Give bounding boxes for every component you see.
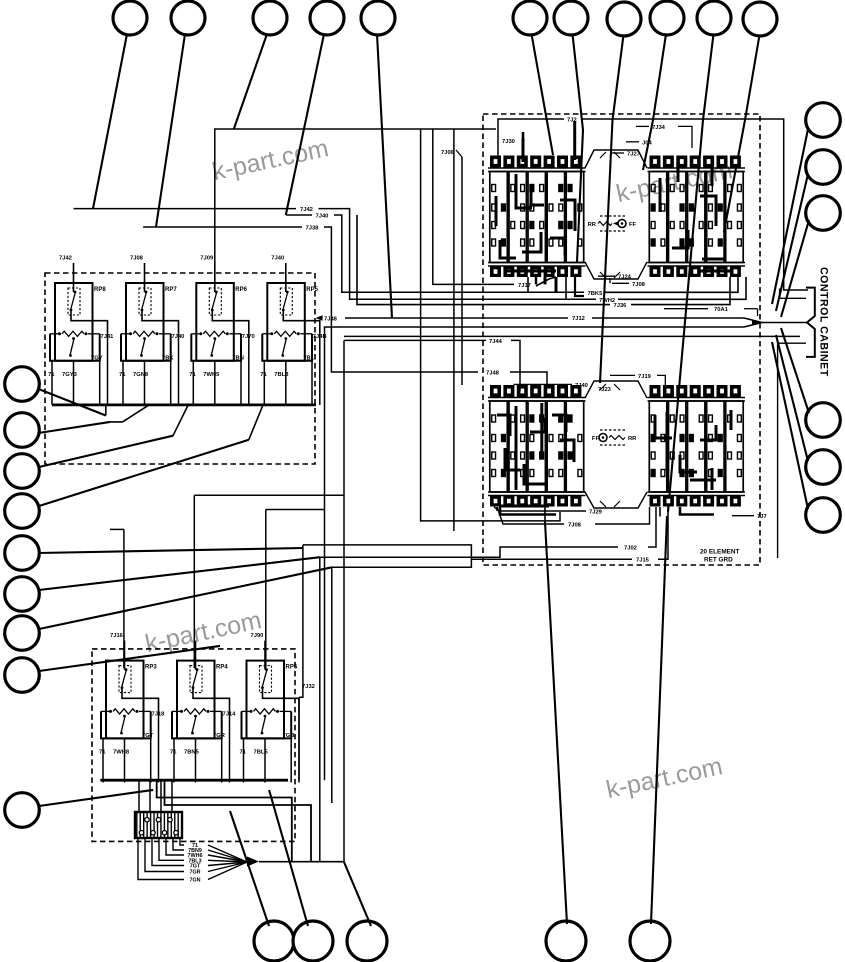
relay RP7 coil	[139, 288, 151, 315]
terminal strip top lugs	[650, 385, 661, 397]
terminal block body	[490, 172, 508, 263]
svg-text:7GY: 7GY	[91, 356, 103, 362]
svg-text:20 ELEMENT: 20 ELEMENT	[700, 549, 740, 556]
terminal strip bottom lugs	[648, 491, 746, 493]
terminal block heavy feed wires	[666, 403, 669, 490]
wire RP5 feeder	[266, 509, 325, 511]
wires from bus to connector block	[138, 780, 140, 812]
label 7J34	[636, 125, 649, 127]
leader from left balloon 2	[39, 422, 111, 433]
relay panel dashed enclosure	[45, 273, 315, 464]
svg-text:7GT: 7GT	[142, 733, 154, 739]
relay RP5 coil out wire	[263, 689, 300, 712]
cable bottom line	[325, 327, 745, 780]
callout balloon bottom	[630, 921, 670, 961]
relay RP6 coil out wire	[212, 311, 249, 334]
svg-text:7J48: 7J48	[324, 317, 338, 323]
wire 7J36 elbow	[631, 277, 730, 305]
svg-text:7J32: 7J32	[302, 684, 315, 690]
connector block	[135, 812, 182, 838]
wire 7J15 branch	[471, 558, 632, 560]
relay RP8 switch	[72, 337, 75, 340]
svg-text:7J48: 7J48	[486, 371, 500, 377]
bracket stub wires	[780, 289, 806, 299]
svg-text:7J09: 7J09	[200, 256, 214, 262]
relay RP6 wires to bus	[192, 361, 194, 405]
leader from balloon 6	[532, 34, 554, 155]
callout balloon top-left	[171, 1, 205, 35]
callout balloon left	[5, 577, 40, 612]
terminal assembly upper bridge top	[585, 150, 647, 168]
callout balloon left	[5, 658, 40, 693]
svg-text:71: 71	[170, 750, 177, 756]
label 7J04	[626, 141, 639, 143]
leader from bottom balloon 1	[230, 811, 269, 926]
svg-text:RP7: RP7	[165, 287, 177, 293]
svg-text:7J16: 7J16	[110, 633, 124, 639]
callout balloon top-right	[607, 2, 641, 36]
terminal block internal wiring	[515, 406, 518, 490]
leader from bottom balloon 3	[344, 862, 371, 926]
svg-text:71: 71	[48, 372, 55, 378]
svg-text:7J30: 7J30	[502, 139, 515, 145]
relay RP7 contact bar	[121, 333, 129, 335]
relay RP3 coil feed wire	[124, 641, 126, 670]
wire 7J44 drop	[511, 340, 520, 391]
terminal block contact slots	[492, 185, 496, 192]
wire 7J06	[461, 157, 463, 385]
relay RP4 switch	[194, 715, 197, 718]
terminal strip top lugs	[650, 156, 661, 168]
wire 7J42 continued	[319, 209, 597, 300]
svg-text:7J40: 7J40	[271, 256, 284, 262]
svg-text:7J40: 7J40	[575, 383, 588, 389]
callout balloon left	[5, 367, 40, 402]
wire 7J48 long run	[316, 315, 323, 321]
terminal assembly lower bridge bottom	[585, 492, 647, 508]
relay RP4 coil feed wire	[195, 641, 197, 670]
callout balloon top-right	[513, 1, 547, 35]
svg-text:RET GRD: RET GRD	[704, 557, 733, 564]
relay RP5 coil feed wire	[285, 263, 287, 292]
svg-text:7GB: 7GB	[283, 733, 295, 739]
relay RP8 coil feed wire	[73, 263, 75, 292]
relay panel bus wire	[52, 403, 316, 406]
wire 7BK5 elbow	[604, 277, 738, 292]
upper assembly jumper RR-FF	[600, 215, 627, 217]
leader from right balloon 1	[772, 129, 808, 304]
relay RP5 switch	[284, 337, 287, 340]
callout balloon left	[5, 536, 40, 571]
relay RP7 wires to bus	[122, 361, 124, 405]
relay RP8 coil	[68, 288, 80, 315]
svg-text:71: 71	[240, 750, 247, 756]
svg-text:7BN: 7BN	[232, 356, 244, 362]
leader from right balloon 5	[776, 335, 808, 461]
terminal block heavy feed wires	[507, 403, 510, 490]
terminal block internal wiring	[666, 412, 669, 470]
svg-text:7J90: 7J90	[251, 633, 264, 639]
relay RP6 contact bar	[191, 333, 199, 335]
svg-text:7BN5: 7BN5	[184, 750, 200, 756]
relay RP5 contact bar	[242, 710, 250, 712]
wire 7J21 upper loop	[498, 119, 564, 157]
callout balloon left	[5, 413, 40, 448]
callout balloon left	[5, 793, 40, 828]
svg-text:7J34: 7J34	[652, 125, 666, 131]
svg-text:7BK: 7BK	[162, 356, 174, 362]
relay RP8 wires to bus	[51, 361, 53, 405]
lower relay panel dashed enclosure	[92, 649, 295, 842]
wire 7J48 long run line	[345, 317, 568, 319]
callout balloon top-left	[310, 1, 344, 35]
wire 7J32 drop	[298, 697, 300, 780]
leader from right balloon 6	[772, 342, 808, 509]
svg-text:7GR: 7GR	[213, 733, 226, 739]
terminal block body	[649, 401, 667, 492]
svg-text:7J42: 7J42	[300, 207, 313, 213]
leader from balloon 4	[286, 34, 324, 215]
svg-text:71: 71	[260, 372, 267, 378]
relay RP3 coil	[119, 666, 131, 693]
callout balloon top-left	[253, 1, 287, 35]
terminal strip bottom lugs	[488, 262, 586, 264]
relay RP7 body	[126, 283, 164, 361]
relay RP5 contact bar	[262, 333, 270, 335]
svg-text:RP5: RP5	[306, 287, 318, 293]
svg-text:CONTROL CABINET: CONTROL CABINET	[818, 267, 830, 377]
relay RP7 switch	[143, 337, 146, 340]
leader from right balloon 3	[781, 220, 809, 317]
wire drop long vertical	[453, 129, 455, 531]
wire 7J02 drop	[648, 507, 656, 547]
svg-text:RP8: RP8	[94, 287, 106, 293]
cable top line	[592, 317, 744, 319]
svg-text:7J27: 7J27	[627, 152, 640, 158]
callout balloon top-left	[113, 1, 147, 35]
leader from balloon 5	[377, 34, 392, 318]
svg-text:70A1: 70A1	[714, 307, 729, 313]
terminal strip top lugs	[490, 385, 501, 397]
leader from left balloon 8	[39, 646, 220, 671]
svg-text:7J23: 7J23	[598, 387, 612, 393]
relay RP4 wires to bus	[173, 738, 175, 782]
svg-text:7BL5: 7BL5	[254, 750, 269, 756]
svg-text:RP3: RP3	[145, 665, 157, 671]
relay RP4 coil	[190, 666, 202, 693]
svg-text:7J7: 7J7	[757, 514, 767, 520]
svg-text:RR: RR	[628, 436, 637, 442]
lower panel second bus	[157, 780, 292, 862]
terminal block internal wiring	[659, 178, 662, 212]
relay RP5 coil	[260, 666, 272, 693]
relay RP5 wires to bus	[243, 738, 245, 782]
callout balloon bottom	[293, 921, 333, 961]
callout balloon top-right	[743, 2, 777, 36]
relay RP7 coil feed wire	[144, 263, 146, 292]
leader from left balloon 4	[39, 440, 249, 506]
terminal block heavy feed wires	[507, 174, 510, 261]
callout balloon top-right	[650, 1, 684, 35]
terminal strip bottom lugs	[648, 262, 746, 264]
relay RP6 body	[196, 283, 234, 361]
wire stub	[565, 277, 567, 299]
wire 7J02 stair drop	[319, 557, 321, 862]
callout balloon top-right	[554, 1, 588, 35]
svg-text:7J19: 7J19	[638, 374, 652, 380]
lower assembly jumper FF-RR	[600, 429, 627, 431]
leader from left balloon 5	[39, 548, 303, 553]
relay RP8 contact bar	[50, 333, 58, 335]
svg-text:7J24: 7J24	[618, 275, 632, 281]
wire 7J38	[143, 226, 302, 228]
leader from left balloon 1	[39, 389, 106, 416]
terminal assembly upper bridge bottom	[585, 262, 647, 279]
terminal assembly lower bridge top	[585, 381, 647, 398]
wire 7J17 to grid	[536, 277, 556, 286]
wire 7J21 upper loop continued	[582, 119, 808, 290]
label 7J08 under upper assembly	[609, 278, 611, 283]
relay RP3 coil out wire	[122, 689, 159, 712]
callout balloon right	[806, 150, 841, 185]
svg-text:7J44: 7J44	[489, 339, 503, 345]
label 7J24	[598, 275, 615, 277]
relay RP4 coil out wire	[193, 689, 230, 712]
terminal strip top lugs	[490, 156, 501, 168]
svg-text:7BL3: 7BL3	[274, 372, 289, 378]
svg-text:7BK5: 7BK5	[588, 291, 604, 297]
wire RP4 feeder	[194, 494, 344, 496]
callout balloon left	[5, 494, 40, 529]
lower relay panel bus wire	[100, 779, 288, 782]
wire 7J32 stair drop	[299, 545, 303, 697]
svg-text:FF: FF	[629, 222, 637, 228]
wire 7J02 run	[320, 547, 618, 557]
leader from left balloon 7	[39, 567, 332, 629]
relay RP6 coil feed wire	[214, 263, 216, 292]
terminal block contact slots	[492, 415, 496, 422]
relay RP5 coil feed wire	[264, 641, 266, 670]
svg-text:RP4: RP4	[216, 665, 228, 671]
svg-text:RR: RR	[588, 222, 597, 228]
svg-text:RP5: RP5	[286, 665, 298, 671]
cable taper to cabinet	[744, 318, 762, 323]
relay RP4 contact bar	[172, 710, 180, 712]
callout balloon right	[806, 450, 841, 485]
svg-text:7J42: 7J42	[59, 256, 72, 262]
leader from balloon 3	[234, 34, 267, 129]
svg-text:71: 71	[119, 372, 126, 378]
wire 7J15 drop	[658, 507, 668, 559]
svg-text:7J06: 7J06	[441, 150, 455, 156]
svg-text:7GR: 7GR	[189, 870, 200, 876]
callout balloon top-right	[697, 1, 731, 35]
wire bend	[249, 405, 263, 440]
svg-text:7J29: 7J29	[589, 510, 603, 516]
relay RP6 switch	[213, 337, 216, 340]
svg-text:7J17: 7J17	[518, 283, 531, 289]
svg-text:7BL: 7BL	[303, 356, 314, 362]
svg-text:7J15: 7J15	[636, 558, 650, 564]
wire drop	[421, 129, 560, 521]
bold drops under upper assembly	[535, 277, 537, 284]
callout balloon left	[5, 454, 40, 489]
svg-text:7J40: 7J40	[316, 214, 329, 220]
terminal block heavy feed wires	[666, 174, 669, 261]
wire route from balloon 3	[215, 129, 496, 263]
callout balloon bottom	[347, 921, 387, 961]
wire 7J48 drop to grid	[510, 372, 547, 391]
svg-text:71: 71	[189, 372, 196, 378]
label 70A1	[664, 308, 708, 310]
leader from left balloon 3	[39, 436, 173, 467]
relay RP7 coil out wire	[142, 311, 179, 334]
wire 7J40	[286, 214, 312, 216]
relay RP5 body	[247, 661, 285, 739]
relay RP8 body	[55, 283, 93, 361]
callout balloon right	[806, 498, 841, 533]
wire 7J15 stair drop	[331, 567, 333, 803]
svg-text:7J36: 7J36	[614, 303, 628, 309]
callout balloon right	[806, 196, 841, 231]
relay RP3 body	[106, 661, 144, 739]
svg-text:7WH5: 7WH5	[203, 372, 220, 378]
wire 7WH2 elbow	[618, 277, 746, 299]
leader from balloon 2	[156, 34, 185, 227]
relay RP3 switch	[123, 715, 126, 718]
callout balloon right	[806, 103, 841, 138]
callout balloon right	[806, 403, 841, 438]
leader from balloon 9	[643, 34, 666, 170]
svg-text:J04: J04	[642, 140, 652, 146]
callout balloon left	[5, 616, 40, 651]
wire drop 7J17 feed	[433, 129, 514, 284]
fan-out arrow	[247, 857, 259, 867]
callout balloon bottom	[546, 921, 586, 961]
svg-text:7J08: 7J08	[568, 523, 582, 529]
svg-text:71: 71	[99, 750, 106, 756]
label 7J40 lower	[514, 383, 572, 385]
terminal grid dashed enclosure	[483, 114, 760, 565]
wire 7J30	[522, 132, 525, 140]
leader from balloon 1	[93, 34, 127, 209]
leader from bottom balloon 5	[651, 516, 667, 924]
svg-text:7GN8: 7GN8	[133, 372, 149, 378]
label 7J27	[610, 152, 624, 154]
svg-text:7GY3: 7GY3	[62, 372, 78, 378]
relay RP5 coil out wire	[283, 311, 320, 334]
wire 7J36	[357, 215, 610, 305]
terminal block contact slots	[651, 415, 655, 422]
terminal block body	[490, 401, 508, 492]
wire 7J38 continued	[324, 227, 478, 372]
leader from bottom balloon 2	[269, 790, 308, 926]
svg-text:7J08: 7J08	[130, 256, 144, 262]
leader from left balloon 6	[39, 557, 320, 590]
relay RP4 body	[177, 661, 215, 739]
leader from left balloon 9	[39, 790, 153, 806]
svg-text:7GN: 7GN	[189, 878, 200, 884]
relay RP3 wires to bus	[102, 738, 104, 782]
relay RP5 coil	[280, 288, 292, 315]
wire bus drop	[105, 405, 107, 416]
wire bend to balloon 2 row	[110, 405, 149, 422]
svg-text:7J02: 7J02	[624, 546, 637, 552]
leader from balloon 11	[724, 35, 760, 232]
label 7J7	[732, 515, 754, 517]
callout balloon top-left	[361, 1, 395, 35]
wire 7J16 feeder	[110, 528, 124, 530]
wire 7J44	[344, 339, 486, 341]
terminal block internal wiring	[522, 138, 525, 162]
wire long vertical feeder	[343, 340, 345, 862]
svg-text:7J08: 7J08	[632, 282, 646, 288]
relay RP6 coil	[209, 288, 221, 315]
wire bend	[173, 405, 188, 436]
wire long run to cabinet lower	[344, 335, 800, 337]
relay RP8 coil out wire	[71, 311, 108, 334]
leader from right balloon 2	[776, 174, 808, 311]
connector fan-out wires	[138, 838, 184, 880]
svg-text:FF: FF	[592, 436, 600, 442]
leader from bottom balloon 4	[545, 522, 567, 924]
relay RP5 switch	[264, 715, 267, 718]
svg-text:7J12: 7J12	[572, 316, 585, 322]
leader from right balloon 4	[781, 328, 809, 413]
relay RP3 contact bar	[101, 710, 109, 712]
terminal block contact slots	[651, 185, 655, 192]
leader from balloon 7	[573, 34, 584, 262]
callout balloon bottom	[254, 921, 294, 961]
terminal strip bottom lugs	[488, 491, 586, 493]
wire to fan corner	[259, 861, 344, 863]
label 7J29	[494, 507, 586, 511]
terminal block body	[649, 172, 667, 263]
lower assembly under-wires	[500, 507, 556, 515]
wire 7J40 continued	[334, 215, 584, 292]
lower panel third bus	[165, 780, 312, 862]
relay RP5 wires to bus	[263, 361, 265, 405]
svg-text:RP6: RP6	[235, 287, 247, 293]
leader from balloon 10	[668, 34, 714, 512]
svg-text:7WH8: 7WH8	[113, 750, 130, 756]
wire 7J15 run	[303, 545, 472, 567]
wire 7J42	[74, 208, 297, 210]
leader from balloon 8	[600, 35, 624, 383]
svg-text:7J38: 7J38	[306, 226, 320, 232]
relay RP5 body	[267, 283, 305, 361]
label 7J19	[610, 374, 635, 376]
control cabinet bracket	[806, 288, 815, 357]
wire 7J08 under-run	[497, 507, 564, 524]
